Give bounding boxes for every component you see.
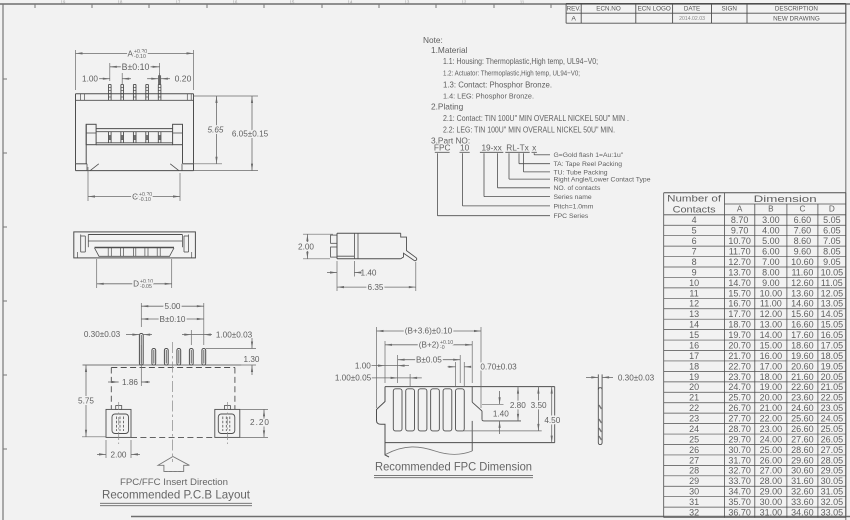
svg-text:25: 25 bbox=[689, 434, 699, 444]
svg-text:10.05: 10.05 bbox=[821, 267, 844, 277]
svg-text:31.05: 31.05 bbox=[821, 487, 844, 497]
dimension 1.00 FPC bbox=[372, 365, 410, 367]
svg-text:1.40: 1.40 bbox=[361, 268, 377, 277]
svg-text:B: B bbox=[768, 205, 774, 214]
svg-text:8.05: 8.05 bbox=[823, 246, 841, 256]
svg-text:4: 4 bbox=[692, 215, 697, 225]
svg-text:0.20: 0.20 bbox=[175, 74, 192, 84]
svg-text:2.00: 2.00 bbox=[298, 243, 314, 252]
frame zone ticks top bbox=[34, 4, 36, 8]
svg-text:-0: -0 bbox=[440, 345, 445, 351]
dimension 5.75 bbox=[82, 436, 106, 438]
svg-text:15.05: 15.05 bbox=[821, 320, 844, 330]
PCB centerline bbox=[172, 342, 174, 462]
front view contact tabs bbox=[95, 247, 175, 249]
svg-text:31: 31 bbox=[689, 497, 699, 507]
svg-text:21.70: 21.70 bbox=[728, 351, 751, 361]
view: side view outline bbox=[337, 232, 401, 234]
svg-text:20.70: 20.70 bbox=[728, 340, 751, 350]
svg-text:9.70: 9.70 bbox=[731, 226, 749, 236]
svg-text:30.00: 30.00 bbox=[760, 497, 783, 507]
svg-text:6.00: 6.00 bbox=[762, 246, 780, 256]
svg-text:19.60: 19.60 bbox=[791, 351, 814, 361]
svg-text:FPC Series: FPC Series bbox=[554, 213, 589, 220]
svg-text:28.00: 28.00 bbox=[760, 476, 783, 486]
dimension C +0.20 -0.10 bottom bbox=[87, 167, 89, 201]
dimension D +0.10 -0.05 bbox=[96, 259, 98, 288]
svg-text:29.05: 29.05 bbox=[821, 466, 844, 476]
dimension 5.00 PCB bbox=[140, 303, 142, 327]
dimension 1.30 pad length bbox=[206, 348, 256, 350]
svg-text:1.00: 1.00 bbox=[355, 361, 371, 370]
svg-text:Series name: Series name bbox=[554, 194, 592, 201]
svg-text:28.05: 28.05 bbox=[821, 455, 844, 465]
svg-text:19-xx: 19-xx bbox=[481, 142, 502, 152]
svg-text:C: C bbox=[132, 192, 138, 201]
svg-text:2.1: Contact: TIN 100U" MIN OV: 2.1: Contact: TIN 100U" MIN OVERALL NICK… bbox=[443, 113, 629, 123]
svg-text:20: 20 bbox=[689, 382, 699, 392]
svg-text:4.50: 4.50 bbox=[544, 416, 560, 425]
svg-text:29.00: 29.00 bbox=[760, 487, 783, 497]
svg-text:5.65: 5.65 bbox=[208, 125, 224, 134]
svg-text:17.05: 17.05 bbox=[821, 340, 844, 350]
svg-text:23.70: 23.70 bbox=[728, 372, 751, 382]
svg-text:12: 12 bbox=[689, 299, 699, 309]
svg-text:5: 5 bbox=[692, 226, 697, 236]
PCB footprint dashed outline bbox=[111, 367, 235, 369]
svg-text:33.70: 33.70 bbox=[728, 476, 751, 486]
svg-text:1.30: 1.30 bbox=[244, 355, 260, 364]
svg-text:17.00: 17.00 bbox=[760, 361, 783, 371]
svg-text:Recommended P.C.B Layout: Recommended P.C.B Layout bbox=[102, 488, 251, 502]
svg-text:11: 11 bbox=[520, 0, 525, 4]
title block top edge (bottom of sheet) bbox=[131, 516, 850, 518]
svg-text:25.60: 25.60 bbox=[791, 414, 814, 424]
svg-text:27: 27 bbox=[689, 455, 699, 465]
svg-text:33.60: 33.60 bbox=[791, 497, 814, 507]
PCB mounting pad right bbox=[215, 409, 240, 437]
svg-text:29.60: 29.60 bbox=[791, 455, 814, 465]
svg-text:23: 23 bbox=[689, 414, 699, 424]
svg-text:20.05: 20.05 bbox=[821, 372, 844, 382]
svg-text:32: 32 bbox=[689, 507, 699, 517]
svg-text:34.70: 34.70 bbox=[728, 487, 751, 497]
dimension 2.00 mounting pad bbox=[105, 440, 107, 458]
svg-text:36.70: 36.70 bbox=[728, 507, 751, 517]
svg-text:7: 7 bbox=[692, 246, 697, 256]
svg-text:13.70: 13.70 bbox=[728, 267, 751, 277]
svg-text:23.00: 23.00 bbox=[760, 424, 783, 434]
svg-text:25.00: 25.00 bbox=[760, 445, 783, 455]
svg-text:25.70: 25.70 bbox=[728, 393, 751, 403]
svg-text:FPC/FFC Insert Direction: FPC/FFC Insert Direction bbox=[120, 477, 228, 488]
svg-text:17: 17 bbox=[176, 0, 181, 4]
svg-text:1.1: Housing: Thermoplastic,Hi: 1.1: Housing: Thermoplastic,High temp, U… bbox=[443, 56, 598, 66]
svg-text:18: 18 bbox=[689, 361, 699, 371]
svg-text:B±0.10: B±0.10 bbox=[122, 62, 150, 72]
svg-text:2.00: 2.00 bbox=[111, 450, 127, 459]
svg-text:4.00: 4.00 bbox=[762, 226, 780, 236]
svg-text:1.40: 1.40 bbox=[493, 410, 509, 419]
svg-text:1.2: Actuator: Thermoplastic,H: 1.2: Actuator: Thermoplastic,High temp, … bbox=[443, 68, 580, 77]
dimension 2.20 bbox=[240, 408, 268, 410]
svg-text:A: A bbox=[128, 49, 134, 58]
svg-text:7.60: 7.60 bbox=[794, 226, 812, 236]
svg-text:10.60: 10.60 bbox=[791, 257, 814, 267]
svg-text:28.60: 28.60 bbox=[791, 445, 814, 455]
svg-text:B±0.10: B±0.10 bbox=[160, 315, 186, 324]
svg-text:9.60: 9.60 bbox=[794, 246, 812, 256]
svg-text:28: 28 bbox=[689, 466, 699, 476]
dimension table Number of Contacts bbox=[664, 192, 846, 194]
svg-text:14: 14 bbox=[348, 0, 353, 4]
svg-text:Right Angle/Lower Contact Type: Right Angle/Lower Contact Type bbox=[554, 176, 651, 183]
dimension 0.70 ±0.03 slot width bbox=[455, 362, 457, 386]
svg-text:32.70: 32.70 bbox=[728, 466, 751, 476]
svg-text:6.35: 6.35 bbox=[368, 283, 384, 292]
svg-text:-0.05: -0.05 bbox=[140, 284, 152, 290]
svg-text:10: 10 bbox=[689, 278, 699, 288]
PCB solder pads row bbox=[139, 334, 143, 366]
svg-text:19: 19 bbox=[61, 0, 66, 4]
svg-text:12.00: 12.00 bbox=[760, 309, 783, 319]
svg-text:B±0.05: B±0.05 bbox=[416, 355, 442, 364]
dimension 0.30 ±0.03 FPC thickness bbox=[586, 376, 598, 378]
view: recommended FPC dimension outline bbox=[385, 386, 555, 388]
dimension 3.50 bbox=[462, 430, 542, 432]
svg-text:16: 16 bbox=[689, 340, 699, 350]
svg-text:Pitch=1.0mm: Pitch=1.0mm bbox=[554, 203, 594, 210]
svg-text:1.00±0.05: 1.00±0.05 bbox=[335, 374, 372, 383]
svg-text:22.05: 22.05 bbox=[821, 393, 844, 403]
svg-text:22: 22 bbox=[689, 403, 699, 413]
pin extension lines bbox=[121, 73, 123, 85]
dimension (B+3.6) ±0.10 bbox=[376, 327, 378, 408]
svg-text:10.70: 10.70 bbox=[728, 236, 751, 246]
svg-text:C: C bbox=[799, 205, 805, 214]
svg-text:12: 12 bbox=[462, 0, 467, 4]
svg-text:ECN.NO: ECN.NO bbox=[596, 6, 621, 13]
svg-text:Recommended FPC Dimension: Recommended FPC Dimension bbox=[375, 459, 532, 473]
svg-text:-0.10: -0.10 bbox=[134, 54, 146, 60]
svg-text:19.00: 19.00 bbox=[760, 382, 783, 392]
svg-text:REV.: REV. bbox=[567, 6, 581, 13]
svg-text:D: D bbox=[829, 205, 835, 214]
svg-text:14.60: 14.60 bbox=[791, 299, 814, 309]
svg-text:2.Plating: 2.Plating bbox=[431, 102, 464, 112]
dimension 1.86 bbox=[108, 381, 119, 383]
svg-text:13.00: 13.00 bbox=[760, 320, 783, 330]
svg-text:22.60: 22.60 bbox=[791, 382, 814, 392]
sheet frame right border bbox=[845, 4, 847, 520]
side view bottom contact pad bbox=[337, 255, 354, 257]
svg-text:9.05: 9.05 bbox=[823, 257, 841, 267]
svg-text:3.50: 3.50 bbox=[531, 401, 547, 410]
frame zone ticks left bbox=[3, 78, 7, 80]
svg-text:33.05: 33.05 bbox=[821, 507, 844, 517]
svg-text:21.60: 21.60 bbox=[791, 372, 814, 382]
svg-text:11.70: 11.70 bbox=[729, 246, 751, 256]
svg-text:5.00: 5.00 bbox=[165, 302, 181, 311]
FPC right notch and tab bbox=[471, 387, 473, 403]
svg-text:26: 26 bbox=[689, 445, 699, 455]
svg-text:RL-Tx: RL-Tx bbox=[506, 142, 529, 152]
svg-text:15.70: 15.70 bbox=[728, 288, 751, 298]
svg-text:24.00: 24.00 bbox=[760, 434, 783, 444]
svg-text:ECN LOGO: ECN LOGO bbox=[638, 6, 671, 13]
view: recommended PCB layout bbox=[83, 364, 242, 366]
top view body with actuator teeth bbox=[85, 124, 87, 164]
svg-text:24.60: 24.60 bbox=[791, 403, 814, 413]
svg-text:29: 29 bbox=[689, 476, 699, 486]
revision table bbox=[566, 3, 846, 5]
svg-text:30: 30 bbox=[689, 487, 699, 497]
svg-text:12.70: 12.70 bbox=[728, 257, 751, 267]
svg-text:30.60: 30.60 bbox=[791, 466, 814, 476]
svg-text:18.05: 18.05 bbox=[821, 351, 844, 361]
svg-text:21.00: 21.00 bbox=[760, 403, 783, 413]
svg-text:6: 6 bbox=[692, 236, 697, 246]
svg-text:NEW DRAWING: NEW DRAWING bbox=[773, 15, 820, 22]
dimension A +0.20 -0.10 top bbox=[75, 50, 77, 90]
svg-text:16.60: 16.60 bbox=[791, 320, 814, 330]
svg-text:17.60: 17.60 bbox=[791, 330, 814, 340]
svg-text:31.70: 31.70 bbox=[728, 455, 751, 465]
svg-text:11.05: 11.05 bbox=[821, 278, 843, 288]
svg-text:TA: Tape Reel Packing: TA: Tape Reel Packing bbox=[554, 161, 623, 168]
svg-text:21.05: 21.05 bbox=[821, 382, 844, 392]
svg-text:-0.10: -0.10 bbox=[139, 197, 151, 203]
svg-text:FPC: FPC bbox=[434, 142, 451, 152]
svg-text:1.4: LEG: Phosphor Bronze.: 1.4: LEG: Phosphor Bronze. bbox=[443, 92, 534, 101]
svg-text:0.30±0.03: 0.30±0.03 bbox=[618, 373, 655, 382]
FPC insert direction arrow bbox=[158, 457, 189, 472]
svg-text:8.60: 8.60 bbox=[794, 236, 812, 246]
svg-text:1.00: 1.00 bbox=[82, 75, 98, 84]
side view left tabs bbox=[331, 235, 337, 243]
dimension B ±0.05 FPC bbox=[397, 355, 399, 383]
svg-text:24.05: 24.05 bbox=[821, 414, 844, 424]
svg-text:2.2: LEG: TIN 100U" MIN OVERAL: 2.2: LEG: TIN 100U" MIN OVERALL NICKEL 5… bbox=[443, 125, 615, 135]
svg-text:14: 14 bbox=[689, 320, 699, 330]
svg-text:1.Material: 1.Material bbox=[431, 45, 468, 55]
dimension 6.05 ±0.15 bbox=[194, 170, 259, 172]
svg-text:16.05: 16.05 bbox=[821, 330, 844, 340]
svg-text:29.70: 29.70 bbox=[728, 434, 751, 444]
svg-text:16.70: 16.70 bbox=[728, 299, 751, 309]
part number tree leader lines bbox=[533, 153, 535, 155]
dimension 2.00 side view bbox=[303, 233, 333, 235]
dimension 5.65 bbox=[194, 95, 223, 97]
front view end hooks bbox=[80, 235, 82, 253]
svg-text:18.60: 18.60 bbox=[791, 340, 814, 350]
dimension 1.40 side view bbox=[336, 261, 338, 277]
svg-text:15.00: 15.00 bbox=[760, 340, 783, 350]
svg-text:6.05±0.15: 6.05±0.15 bbox=[232, 130, 269, 139]
top view bottom edge and feet bbox=[76, 163, 88, 165]
PCB mounting pad left bbox=[106, 409, 131, 437]
svg-text:5.75: 5.75 bbox=[78, 396, 94, 405]
svg-text:A: A bbox=[571, 16, 576, 23]
svg-text:28.70: 28.70 bbox=[728, 424, 751, 434]
svg-text:13: 13 bbox=[689, 309, 699, 319]
svg-text:Number of: Number of bbox=[667, 193, 721, 204]
svg-text:14.05: 14.05 bbox=[821, 309, 844, 319]
svg-text:8.70: 8.70 bbox=[731, 215, 749, 225]
dimension 0.20 pin width bbox=[147, 78, 158, 80]
svg-text:26.05: 26.05 bbox=[821, 434, 844, 444]
svg-text:18.00: 18.00 bbox=[760, 372, 783, 382]
FPC break wave line bbox=[385, 447, 472, 455]
svg-text:19: 19 bbox=[689, 372, 699, 382]
svg-text:31.60: 31.60 bbox=[791, 476, 814, 486]
sheet frame left border bbox=[2, 4, 4, 520]
svg-text:15: 15 bbox=[290, 0, 295, 4]
dimension B ±0.10 top view bbox=[109, 63, 111, 81]
side view right leg hook bbox=[401, 233, 417, 260]
svg-text:30.70: 30.70 bbox=[728, 445, 751, 455]
svg-text:8.00: 8.00 bbox=[762, 267, 780, 277]
svg-text:16.00: 16.00 bbox=[760, 351, 783, 361]
svg-text:25.05: 25.05 bbox=[821, 424, 844, 434]
svg-text:34.60: 34.60 bbox=[791, 507, 814, 517]
svg-text:15.60: 15.60 bbox=[791, 309, 814, 319]
svg-text:Dimension: Dimension bbox=[754, 193, 817, 204]
svg-text:2014.02.03: 2014.02.03 bbox=[679, 16, 705, 22]
svg-text:(B+3.6)±0.10: (B+3.6)±0.10 bbox=[405, 327, 453, 336]
svg-text:1.86: 1.86 bbox=[122, 378, 138, 387]
svg-text:27.60: 27.60 bbox=[791, 434, 814, 444]
svg-text:9.00: 9.00 bbox=[762, 278, 780, 288]
svg-text:23.05: 23.05 bbox=[821, 403, 844, 413]
svg-text:3.00: 3.00 bbox=[762, 215, 780, 225]
svg-text:2.20: 2.20 bbox=[250, 418, 270, 427]
svg-text:32.05: 32.05 bbox=[821, 497, 844, 507]
svg-text:DESCRIPTION: DESCRIPTION bbox=[775, 6, 818, 13]
svg-text:5.05: 5.05 bbox=[823, 215, 841, 225]
svg-text:Note:: Note: bbox=[423, 35, 443, 45]
dimension 1.00 ±0.05 FPC bbox=[409, 374, 411, 386]
svg-text:30.05: 30.05 bbox=[821, 476, 844, 486]
svg-text:22.70: 22.70 bbox=[728, 361, 751, 371]
svg-text:0.30±0.03: 0.30±0.03 bbox=[84, 330, 121, 339]
svg-text:21: 21 bbox=[689, 393, 699, 403]
svg-text:26.00: 26.00 bbox=[760, 455, 783, 465]
dimension 6.35 side view bbox=[336, 277, 338, 292]
svg-text:8: 8 bbox=[692, 257, 697, 267]
view: FPC thickness side strip bbox=[597, 374, 599, 442]
svg-text:DATE: DATE bbox=[684, 6, 700, 13]
svg-text:13.60: 13.60 bbox=[791, 288, 814, 298]
dimension (B+2) +0.10 -0 bbox=[384, 341, 386, 383]
svg-text:15: 15 bbox=[689, 330, 699, 340]
svg-text:10.00: 10.00 bbox=[760, 288, 783, 298]
view: connector top view outline bbox=[76, 93, 194, 95]
svg-text:11.00: 11.00 bbox=[760, 299, 782, 309]
svg-text:6.60: 6.60 bbox=[794, 215, 812, 225]
svg-text:27.00: 27.00 bbox=[760, 466, 783, 476]
svg-text:9: 9 bbox=[692, 267, 697, 277]
svg-text:1.00±0.03: 1.00±0.03 bbox=[216, 330, 253, 339]
svg-text:7.05: 7.05 bbox=[823, 236, 841, 246]
svg-text:27.05: 27.05 bbox=[821, 445, 844, 455]
svg-text:19.05: 19.05 bbox=[821, 361, 844, 371]
svg-text:5.00: 5.00 bbox=[762, 236, 780, 246]
sheet frame top border bbox=[0, 3, 850, 5]
svg-text:13.05: 13.05 bbox=[821, 299, 844, 309]
dimension 4.50 bbox=[551, 387, 553, 443]
svg-text:11: 11 bbox=[689, 288, 698, 298]
svg-text:0.70±0.03: 0.70±0.03 bbox=[480, 362, 517, 371]
svg-text:20.00: 20.00 bbox=[760, 393, 783, 403]
svg-text:D: D bbox=[133, 280, 139, 289]
FPC comb slots bbox=[393, 389, 402, 431]
svg-text:23.60: 23.60 bbox=[791, 393, 814, 403]
svg-text:A: A bbox=[737, 205, 743, 214]
svg-text:18.70: 18.70 bbox=[728, 320, 751, 330]
svg-text:31.00: 31.00 bbox=[760, 507, 783, 517]
svg-text:16: 16 bbox=[233, 0, 238, 4]
svg-text:19.70: 19.70 bbox=[728, 330, 751, 340]
svg-text:24: 24 bbox=[689, 424, 699, 434]
svg-text:12.05: 12.05 bbox=[821, 288, 844, 298]
svg-text:35.70: 35.70 bbox=[728, 497, 751, 507]
svg-text:24.70: 24.70 bbox=[728, 382, 751, 392]
svg-text:G=Gold flash 1=Au:1u": G=Gold flash 1=Au:1u" bbox=[554, 152, 624, 159]
svg-text:26.60: 26.60 bbox=[791, 424, 814, 434]
svg-text:18: 18 bbox=[118, 0, 123, 4]
svg-text:7.00: 7.00 bbox=[762, 257, 780, 267]
svg-text:10: 10 bbox=[460, 142, 470, 152]
svg-text:17.70: 17.70 bbox=[728, 309, 751, 319]
svg-text:TU: Tube Packing: TU: Tube Packing bbox=[554, 169, 608, 176]
svg-text:SIGN: SIGN bbox=[722, 6, 738, 13]
view: connector front view outline bbox=[74, 232, 196, 258]
svg-text:(B+2): (B+2) bbox=[419, 341, 440, 350]
dimension 1.40 FPC bbox=[499, 391, 501, 404]
top view contact pins bbox=[108, 85, 110, 101]
svg-text:14.70: 14.70 bbox=[728, 278, 751, 288]
svg-text:26.70: 26.70 bbox=[728, 403, 751, 413]
svg-text:NO. of contacts: NO. of contacts bbox=[554, 185, 601, 192]
svg-text:20.60: 20.60 bbox=[791, 361, 814, 371]
dimension 1.00 pin pitch bbox=[96, 78, 110, 80]
svg-text:12.60: 12.60 bbox=[791, 278, 814, 288]
svg-text:6.05: 6.05 bbox=[823, 226, 841, 236]
svg-text:11.60: 11.60 bbox=[791, 267, 813, 277]
svg-text:Contacts: Contacts bbox=[673, 204, 716, 215]
svg-text:13: 13 bbox=[405, 0, 410, 4]
svg-text:22.00: 22.00 bbox=[760, 414, 783, 424]
svg-text:1.3: Contact: Phosphor Bronze.: 1.3: Contact: Phosphor Bronze. bbox=[443, 79, 552, 89]
svg-text:32.60: 32.60 bbox=[791, 487, 814, 497]
dimension 2.80 bbox=[517, 387, 519, 421]
svg-text:2.80: 2.80 bbox=[510, 401, 526, 410]
dimension B ±0.10 PCB bbox=[141, 318, 204, 320]
svg-text:17: 17 bbox=[689, 351, 699, 361]
svg-text:14.00: 14.00 bbox=[760, 330, 783, 340]
svg-text:27.70: 27.70 bbox=[728, 414, 751, 424]
dimension 1.00 ±0.03 pad pitch bbox=[190, 330, 192, 345]
